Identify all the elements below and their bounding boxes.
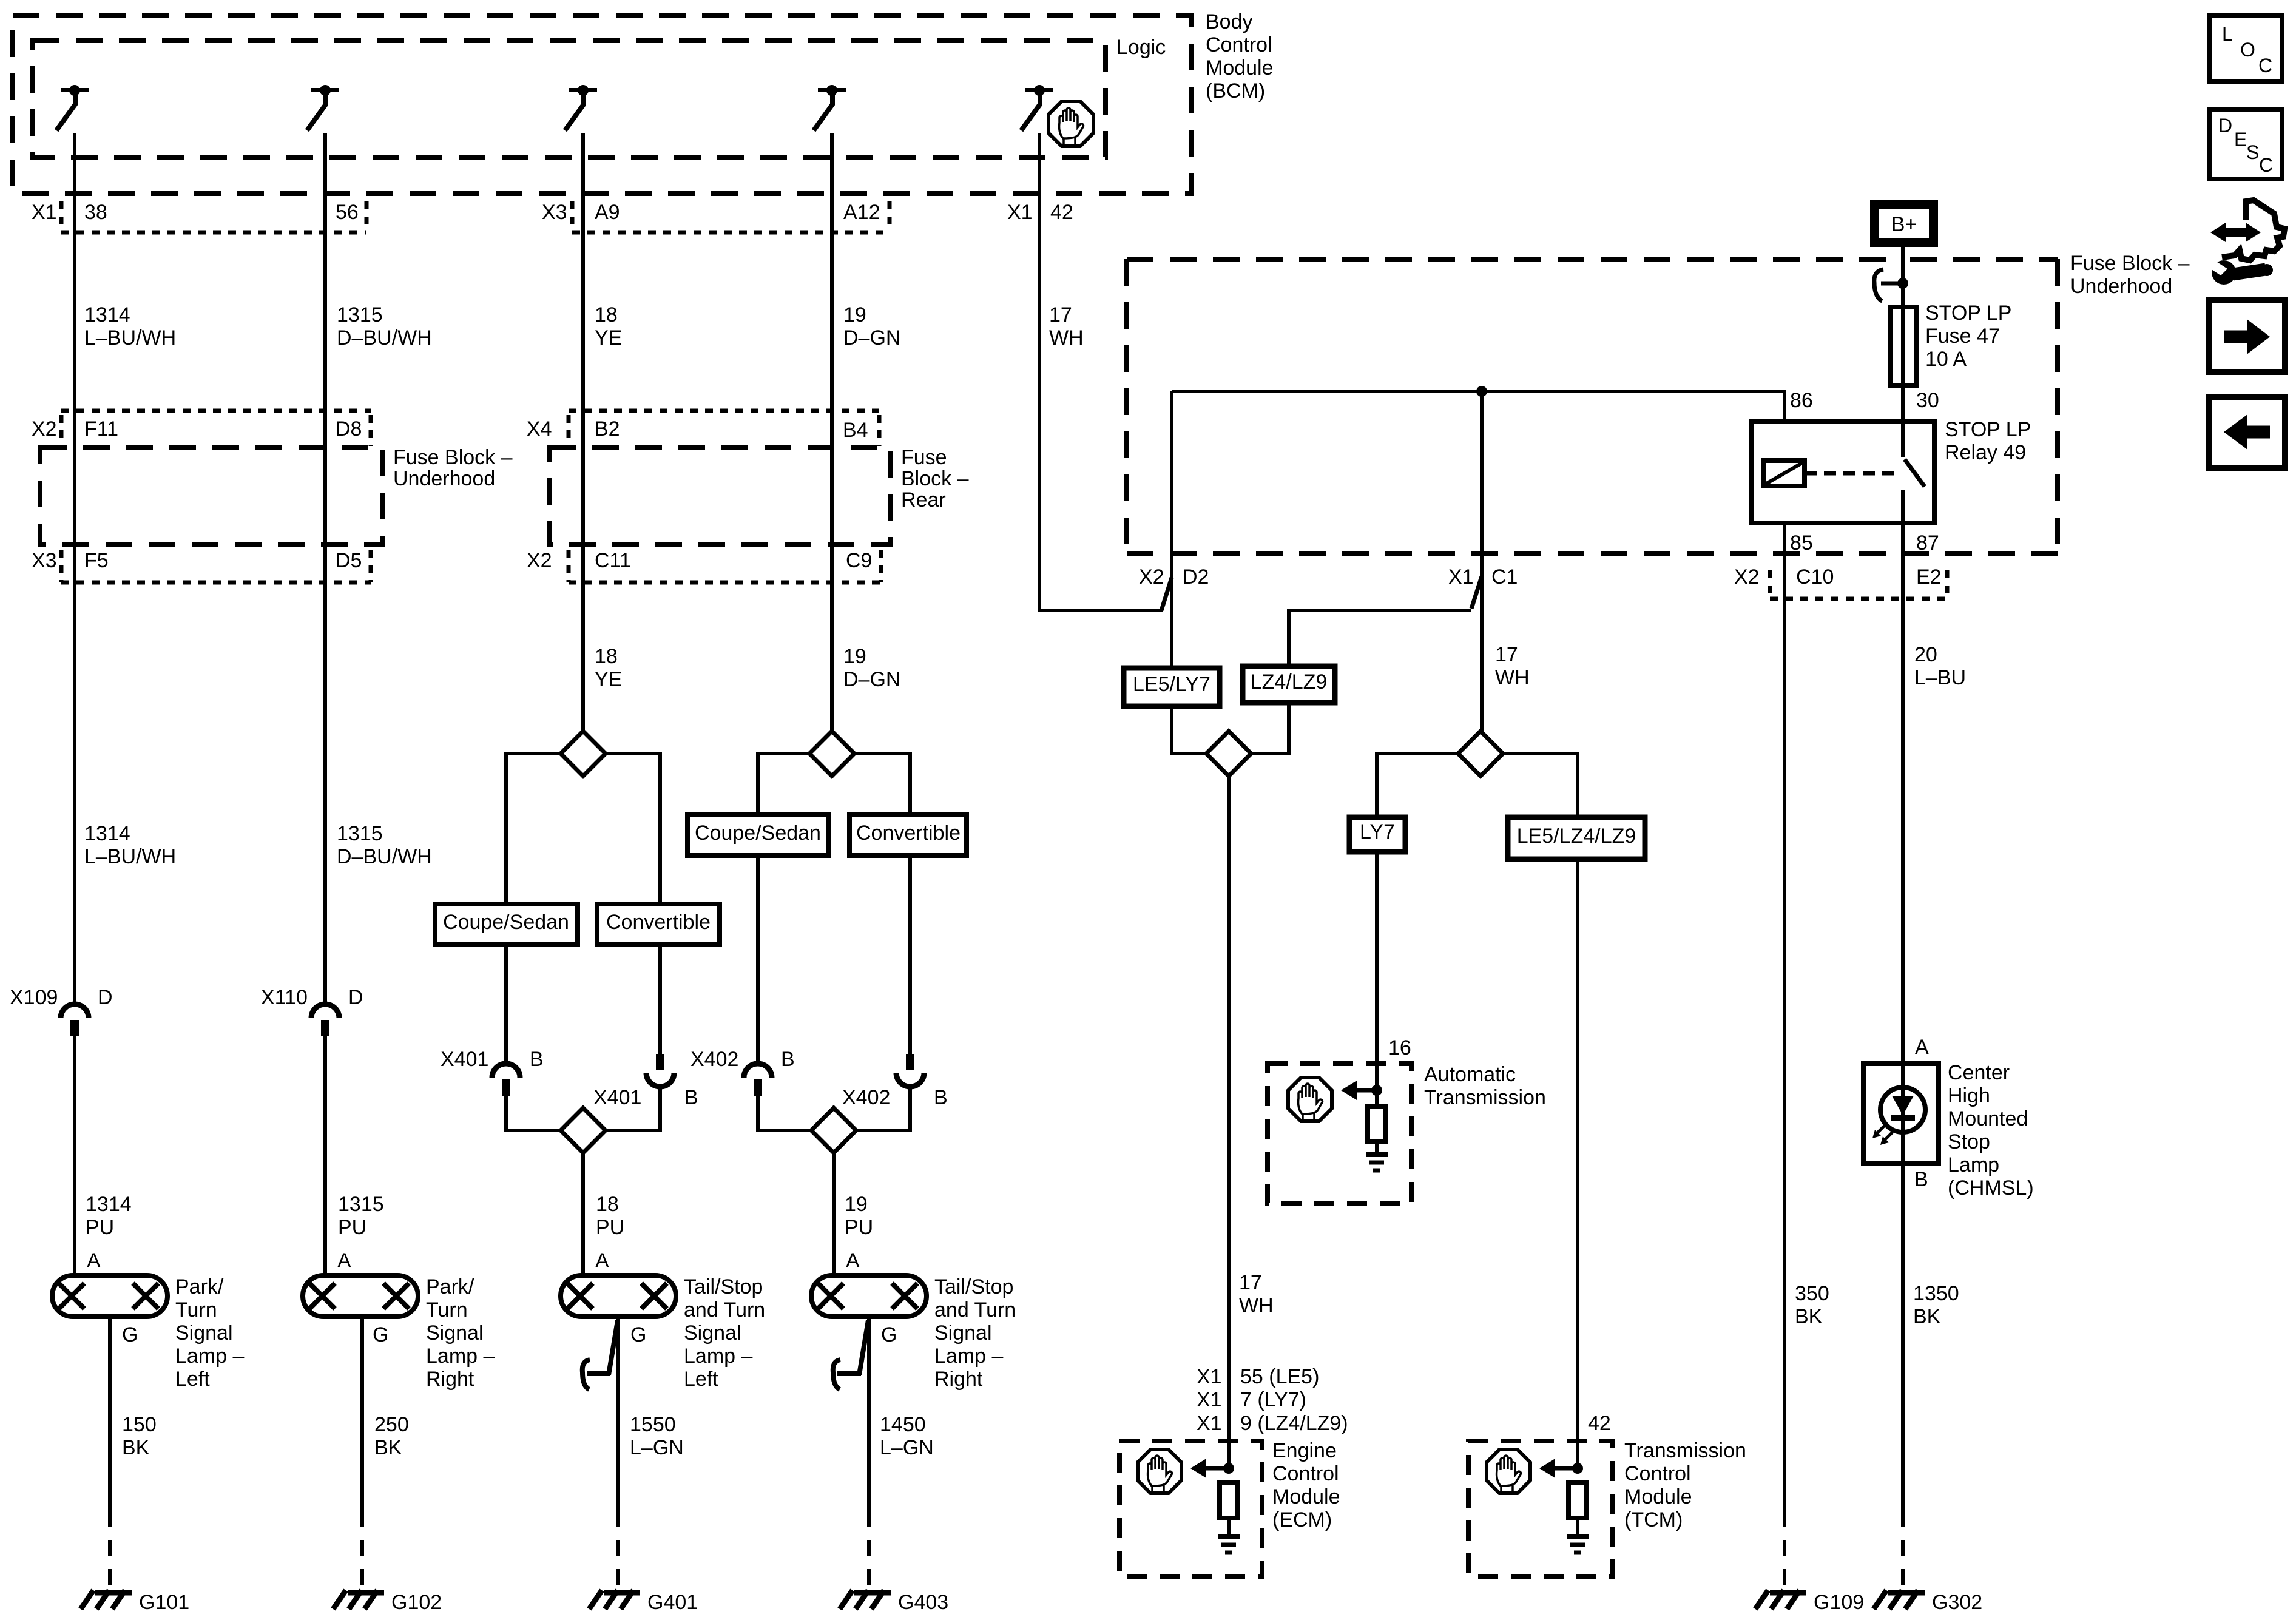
label 250 BK [374, 1413, 409, 1459]
label 1450 L-GN [880, 1413, 934, 1459]
svg-text:Module: Module [1624, 1485, 1692, 1508]
splice diamond 17 WH [1458, 731, 1503, 776]
svg-text:19: 19 [845, 1193, 868, 1216]
svg-text:A9: A9 [595, 201, 620, 224]
wire X402 right to diamond [856, 1087, 910, 1130]
svg-text:Convertible: Convertible [856, 822, 961, 845]
label 350 BK [1795, 1282, 1829, 1328]
svg-text:G403: G403 [898, 1591, 948, 1614]
svg-text:(BCM): (BCM) [1206, 79, 1265, 103]
connector X401 right [646, 1054, 674, 1087]
svg-text:38: 38 [84, 201, 107, 224]
svg-text:WH: WH [1495, 666, 1530, 689]
box Coupe/Sedan upper [687, 814, 828, 856]
wire 350 BK [1783, 523, 1786, 1511]
box LE5/LY7 [1124, 668, 1220, 706]
svg-text:86: 86 [1790, 389, 1813, 412]
ground G109 [1755, 1590, 1806, 1609]
label Transmission Control Module TCM [1624, 1439, 1746, 1531]
svg-text:Module: Module [1272, 1485, 1340, 1508]
pin label X3 A9 [542, 201, 620, 224]
svg-text:LE5/LZ4/LZ9: LE5/LZ4/LZ9 [1517, 825, 1636, 848]
wire 19 branch left to Coupe/Sedan [758, 754, 810, 814]
svg-text:87: 87 [1916, 532, 1939, 555]
arrow to hand TCM [1539, 1459, 1575, 1478]
svg-text:85: 85 [1790, 532, 1813, 555]
switch S3 in BCM [565, 85, 597, 130]
label 18 PU [596, 1193, 624, 1239]
wire B+ to fuse 47 [1901, 247, 1905, 422]
connector band X1 dotted [61, 201, 890, 232]
wire below Convertible box [658, 944, 662, 1054]
svg-text:Lamp: Lamp [1948, 1153, 1999, 1176]
svg-text:L–GN: L–GN [630, 1436, 684, 1459]
wire X401 right to diamond [605, 1087, 660, 1130]
svg-text:B4: B4 [843, 419, 868, 442]
svg-text:Automatic: Automatic [1424, 1063, 1516, 1086]
svg-text:BK: BK [1795, 1305, 1823, 1328]
svg-text:E2: E2 [1916, 565, 1942, 589]
pin label X2 D2 [1139, 565, 1209, 589]
svg-text:1315: 1315 [338, 1193, 384, 1216]
svg-text:42: 42 [1050, 201, 1073, 224]
box LE5/LZ4/LZ9 [1508, 817, 1645, 859]
svg-text:Tail/Stop: Tail/Stop [684, 1275, 763, 1298]
arrow to hand ECM [1190, 1459, 1226, 1478]
label Tail/Stop Lamp Right [934, 1275, 1016, 1391]
wire ECM resistor to ground [1227, 1519, 1231, 1537]
svg-text:PU: PU [338, 1216, 366, 1239]
svg-text:Fuse 47: Fuse 47 [1925, 325, 2000, 348]
wire 250 BK [360, 1317, 364, 1511]
svg-text:and Turn: and Turn [684, 1298, 765, 1321]
svg-text:A: A [1915, 1036, 1929, 1059]
lamp Park/Turn Signal Right [303, 1275, 418, 1317]
wire C1 down [1480, 391, 1484, 731]
svg-text:D: D [98, 986, 113, 1009]
pin label X2 C10 [1734, 565, 1834, 589]
connector band X3/X2 bottom [61, 550, 881, 582]
svg-text:S: S [2246, 141, 2259, 163]
svg-text:G401: G401 [647, 1591, 698, 1614]
wire LZ4/LZ9 to diamond [1251, 703, 1289, 754]
relay coil dashed link [1805, 471, 1900, 476]
svg-text:1550: 1550 [630, 1413, 676, 1436]
svg-text:1350: 1350 [1913, 1282, 1959, 1305]
svg-text:L–BU: L–BU [1914, 666, 1966, 689]
svg-text:1315: 1315 [337, 303, 383, 326]
svg-text:Engine: Engine [1272, 1439, 1337, 1462]
ground G102 [333, 1590, 384, 1609]
label X402 B left [690, 1048, 795, 1071]
label 17 WH [1049, 303, 1084, 349]
lamp Tail/Stop Left [561, 1275, 676, 1317]
fuse block underhood left dashed box [40, 447, 382, 544]
svg-text:Underhood: Underhood [393, 467, 495, 490]
switch S1 in BCM [56, 85, 89, 130]
label Body Control Module (BCM) [1206, 10, 1274, 103]
label 1314 PU [86, 1193, 132, 1239]
svg-text:B: B [781, 1048, 795, 1071]
svg-text:X401: X401 [441, 1048, 488, 1071]
svg-text:Stop: Stop [1948, 1130, 1990, 1153]
junction node at C1 [1476, 386, 1487, 397]
svg-text:C9: C9 [846, 549, 872, 572]
svg-text:X3: X3 [542, 201, 567, 224]
connector X402 right [896, 1054, 924, 1087]
pin label X3 F5 [32, 549, 109, 572]
svg-text:G: G [122, 1323, 138, 1346]
BCM Logic inner dashed box [33, 41, 1106, 157]
svg-text:B: B [684, 1086, 698, 1109]
pin label X4 B2 [527, 417, 620, 440]
svg-text:(CHMSL): (CHMSL) [1948, 1176, 2034, 1200]
svg-text:BK: BK [374, 1436, 402, 1459]
svg-text:G: G [881, 1323, 897, 1346]
svg-text:D5: D5 [336, 549, 362, 572]
ground G101 [81, 1590, 132, 1609]
TCM dashed box [1468, 1441, 1612, 1576]
relay coil [1764, 461, 1805, 486]
box Convertible lower [597, 904, 720, 944]
wire below Coupe/Sedan box [504, 944, 508, 1064]
svg-text:18: 18 [595, 645, 618, 668]
label X401 B left [441, 1048, 544, 1071]
svg-text:C1: C1 [1491, 565, 1518, 589]
label Engine Control Module ECM [1272, 1439, 1340, 1531]
svg-text:YE: YE [595, 668, 622, 691]
label 1315 PU [338, 1193, 384, 1239]
svg-text:18: 18 [596, 1193, 619, 1216]
svg-text:Coupe/Sedan: Coupe/Sedan [443, 911, 569, 934]
wire 19 PU to lamp [832, 1152, 836, 1275]
svg-text:L–BU/WH: L–BU/WH [84, 845, 176, 868]
hand icon TCM [1487, 1450, 1530, 1493]
wire X401 left to diamond [506, 1096, 560, 1130]
label X110 D [261, 986, 363, 1009]
svg-text:Turn: Turn [175, 1298, 217, 1321]
svg-text:150: 150 [122, 1413, 157, 1436]
svg-text:Transmission: Transmission [1624, 1439, 1746, 1462]
wire 19 D-GN upper [830, 133, 834, 731]
svg-text:WH: WH [1049, 326, 1084, 349]
svg-text:B: B [530, 1048, 544, 1071]
svg-text:X1: X1 [1197, 1365, 1222, 1388]
svg-text:D: D [348, 986, 363, 1009]
svg-text:Lamp –: Lamp – [684, 1345, 752, 1368]
next page arrow icon [2209, 300, 2285, 372]
svg-text:C10: C10 [1796, 565, 1834, 589]
label Park/Turn Signal Lamp Right [426, 1275, 495, 1391]
hand icon warning BCM [1048, 101, 1093, 146]
svg-text:LZ4/LZ9: LZ4/LZ9 [1251, 670, 1328, 694]
svg-text:Underhood: Underhood [2070, 275, 2172, 298]
svg-text:G101: G101 [139, 1591, 189, 1614]
box Coupe/Sedan lower [435, 904, 578, 944]
svg-text:Park/: Park/ [426, 1275, 474, 1298]
svg-text:L: L [2222, 23, 2233, 45]
wire 17 WH from BCM [1039, 133, 1172, 610]
svg-text:F5: F5 [84, 549, 109, 572]
svg-text:A: A [846, 1249, 860, 1272]
svg-text:G302: G302 [1932, 1591, 1982, 1614]
label X401 B right [593, 1086, 698, 1109]
junction node TCM [1572, 1463, 1583, 1474]
wire 1315 D-BU/WH upper [323, 133, 327, 1004]
label 18 YE mid [595, 645, 622, 691]
svg-text:Lamp –: Lamp – [175, 1345, 244, 1368]
svg-text:19: 19 [843, 645, 866, 668]
label STOP LP Relay 49 [1945, 418, 2031, 464]
svg-text:X402: X402 [842, 1086, 890, 1109]
wire below Convertible upper box [908, 856, 912, 1054]
svg-text:LY7: LY7 [1360, 820, 1395, 843]
svg-text:16: 16 [1388, 1036, 1411, 1059]
resistor AT [1368, 1106, 1386, 1141]
label Automatic Transmission [1424, 1063, 1546, 1109]
svg-text:X1: X1 [32, 201, 57, 224]
hand icon ECM [1138, 1450, 1181, 1493]
wire D2 to LE5/LY7 [1170, 391, 1173, 668]
ground G302 [1874, 1590, 1925, 1609]
svg-text:B: B [1914, 1168, 1928, 1191]
svg-text:1314: 1314 [84, 303, 130, 326]
label Park/Turn Signal Lamp Left [175, 1275, 244, 1391]
label Fuse Block - Rear [901, 446, 969, 511]
svg-text:A: A [337, 1249, 351, 1272]
svg-text:Fuse Block –: Fuse Block – [2070, 252, 2190, 275]
CHMSL box [1863, 1064, 1939, 1164]
svg-text:18: 18 [595, 303, 618, 326]
relay STOP LP Relay 49 box [1752, 422, 1934, 523]
wire engine diamond to ECM [1227, 777, 1231, 1468]
automatic transmission dashed box [1268, 1064, 1411, 1203]
svg-text:PU: PU [845, 1216, 873, 1239]
box LY7 [1349, 817, 1405, 852]
splice diamond wire 19 [809, 731, 854, 776]
connector slant D2 [1161, 578, 1172, 610]
connector X402 left [744, 1064, 772, 1096]
svg-text:Control: Control [1624, 1462, 1691, 1485]
wire LE5/LY7 to diamond [1172, 706, 1207, 754]
svg-text:Module: Module [1206, 56, 1274, 79]
svg-text:17: 17 [1049, 303, 1072, 326]
wire 18 branch left to Coupe/Sedan [506, 754, 561, 904]
svg-text:D–BU/WH: D–BU/WH [337, 845, 432, 868]
svg-text:D–GN: D–GN [843, 326, 900, 349]
svg-text:55 (LE5): 55 (LE5) [1240, 1365, 1319, 1388]
label 1315 D-BU/WH mid [337, 822, 432, 868]
DESC icon box [2209, 109, 2282, 179]
svg-text:1314: 1314 [84, 822, 130, 845]
label Center High Mounted Stop Lamp CHMSL [1948, 1061, 2034, 1200]
connector X401 left [492, 1064, 520, 1096]
svg-text:B: B [934, 1086, 948, 1109]
svg-text:Turn: Turn [426, 1298, 468, 1321]
arrow to hand AT [1341, 1081, 1376, 1100]
svg-text:X1: X1 [1197, 1412, 1222, 1435]
svg-text:L–GN: L–GN [880, 1436, 934, 1459]
svg-text:E: E [2234, 129, 2247, 150]
connector band X2 C10 E2 [1770, 570, 1947, 599]
wire 1314 PU to lamp [73, 1036, 76, 1275]
hook on lamp E3 ground [582, 1320, 618, 1389]
svg-text:STOP LP: STOP LP [1945, 418, 2031, 441]
svg-text:Body: Body [1206, 10, 1253, 33]
svg-text:Control: Control [1272, 1462, 1339, 1485]
ECM dashed box [1119, 1441, 1262, 1576]
svg-text:1450: 1450 [880, 1413, 926, 1436]
svg-text:C: C [2258, 55, 2272, 76]
splice diamond engine [1206, 731, 1251, 776]
ground G403 [840, 1590, 891, 1609]
label 20 L-BU [1914, 643, 1966, 689]
ground G401 [589, 1590, 640, 1609]
svg-text:X402: X402 [690, 1048, 738, 1071]
bus wire from relay 86 to D2 [1172, 391, 1784, 422]
pin label X2 C11 [527, 549, 631, 572]
pin label X2 F11 [32, 417, 118, 440]
svg-text:20: 20 [1914, 643, 1937, 666]
wire 1315 PU to lamp [323, 1036, 327, 1275]
ground ECM [1218, 1537, 1240, 1553]
label 150 BK [122, 1413, 157, 1459]
connector X110 [311, 1004, 339, 1036]
connector slant C1 [1471, 576, 1482, 609]
box LZ4/LZ9 [1243, 666, 1335, 703]
fuse block rear dashed box [549, 447, 890, 544]
pin label X1 38 [32, 201, 107, 224]
label 17 WH engine [1239, 1271, 1274, 1317]
label 19 D-GN [843, 303, 900, 349]
wire below Coupe/Sedan upper box [756, 856, 760, 1064]
wire 1314 L-BU/WH upper [73, 133, 76, 1004]
hook on lamp E4 ground [833, 1320, 868, 1389]
label 17 WH at C1 [1495, 643, 1530, 689]
connector band X2/X4 dotted top [61, 411, 879, 446]
junction node AT [1371, 1085, 1382, 1096]
svg-text:Control: Control [1206, 33, 1272, 56]
label STOP LP Fuse 47 10 A [1925, 302, 2011, 371]
svg-text:PU: PU [86, 1216, 114, 1239]
svg-text:Logic: Logic [1116, 36, 1166, 59]
svg-text:(ECM): (ECM) [1272, 1508, 1332, 1531]
resistor TCM [1568, 1483, 1587, 1518]
box Convertible upper [849, 814, 967, 856]
svg-text:B2: B2 [595, 417, 620, 440]
svg-text:STOP LP: STOP LP [1925, 302, 2011, 325]
svg-text:Convertible: Convertible [606, 911, 711, 934]
svg-text:Signal: Signal [934, 1321, 992, 1345]
svg-text:1314: 1314 [86, 1193, 132, 1216]
svg-text:Left: Left [175, 1368, 210, 1391]
svg-text:Right: Right [934, 1368, 983, 1391]
svg-text:250: 250 [374, 1413, 409, 1436]
svg-text:30: 30 [1916, 389, 1939, 412]
svg-text:Lamp –: Lamp – [426, 1345, 495, 1368]
svg-text:X4: X4 [527, 417, 552, 440]
lamp Tail/Stop Right [811, 1275, 927, 1317]
svg-text:Transmission: Transmission [1424, 1086, 1546, 1109]
svg-text:7 (LY7): 7 (LY7) [1240, 1388, 1306, 1411]
svg-text:Tail/Stop: Tail/Stop [934, 1275, 1013, 1298]
svg-text:D–BU/WH: D–BU/WH [337, 326, 432, 349]
svg-text:A12: A12 [843, 201, 880, 224]
connector X109 [61, 1004, 89, 1036]
svg-text:Fuse Block –: Fuse Block – [393, 446, 513, 469]
BCM Body Control Module outer dashed box [13, 16, 1191, 194]
svg-text:350: 350 [1795, 1282, 1829, 1305]
switch S2 in BCM [307, 85, 339, 130]
wire LE5/LZ4/LZ9 to TCM [1576, 859, 1579, 1468]
wire 1550 L-GN [616, 1317, 620, 1511]
fuse STOP LP Fuse 47 10A [1891, 307, 1917, 385]
junction node ECM [1223, 1463, 1234, 1474]
svg-text:X2: X2 [1734, 565, 1760, 589]
svg-text:Park/: Park/ [175, 1275, 224, 1298]
label 1315 D-BU/WH [337, 303, 432, 349]
wire AT resistor to ground [1375, 1142, 1379, 1155]
svg-text:X3: X3 [32, 549, 57, 572]
svg-text:G102: G102 [391, 1591, 442, 1614]
svg-text:LE5/LY7: LE5/LY7 [1133, 673, 1210, 696]
label Tail/Stop Lamp Left [684, 1275, 765, 1391]
svg-text:G: G [373, 1323, 388, 1346]
svg-text:Fuse: Fuse [901, 446, 947, 469]
svg-text:Rear: Rear [901, 488, 946, 511]
svg-text:17: 17 [1495, 643, 1518, 666]
switch S4 in BCM [814, 85, 846, 130]
wire 17WH branch to LY7 [1377, 754, 1459, 817]
svg-text:and Turn: and Turn [934, 1298, 1016, 1321]
label 19 D-GN mid [843, 645, 900, 691]
svg-text:X1: X1 [1197, 1388, 1222, 1411]
splice diamond X402 [811, 1108, 856, 1153]
svg-text:YE: YE [595, 326, 622, 349]
svg-text:Block –: Block – [901, 467, 969, 490]
lamp Park/Turn Signal Left [52, 1275, 167, 1317]
svg-text:C11: C11 [595, 549, 631, 572]
label 1550 L-GN [630, 1413, 684, 1459]
relay switch blade [1903, 422, 1925, 523]
svg-text:(TCM): (TCM) [1624, 1508, 1683, 1531]
wire X402 left to diamond [758, 1096, 811, 1130]
svg-text:Signal: Signal [426, 1321, 484, 1345]
svg-text:O: O [2240, 39, 2255, 61]
label 19 PU [845, 1193, 873, 1239]
svg-text:56: 56 [336, 201, 359, 224]
label 1314 L-BU/WH mid [84, 822, 176, 868]
wire 20 L-BU [1901, 523, 1905, 1064]
label Fuse Block - Underhood right [2070, 252, 2190, 298]
svg-text:PU: PU [596, 1216, 624, 1239]
svg-text:G: G [630, 1323, 646, 1346]
svg-text:D2: D2 [1183, 565, 1209, 589]
label Fuse Block - Underhood left [393, 446, 513, 490]
svg-text:C: C [2259, 154, 2273, 176]
svg-text:D–GN: D–GN [843, 668, 900, 691]
LOC icon box [2209, 15, 2282, 82]
wire 150 BK [108, 1317, 112, 1511]
splice diamond wire 18 [561, 731, 606, 776]
svg-text:Left: Left [684, 1368, 718, 1391]
label X109 D [10, 986, 113, 1009]
svg-text:WH: WH [1239, 1294, 1274, 1317]
svg-text:X110: X110 [261, 986, 308, 1009]
svg-text:1315: 1315 [337, 822, 383, 845]
label X402 B right [842, 1086, 948, 1109]
wire 1350 BK [1901, 1164, 1905, 1511]
